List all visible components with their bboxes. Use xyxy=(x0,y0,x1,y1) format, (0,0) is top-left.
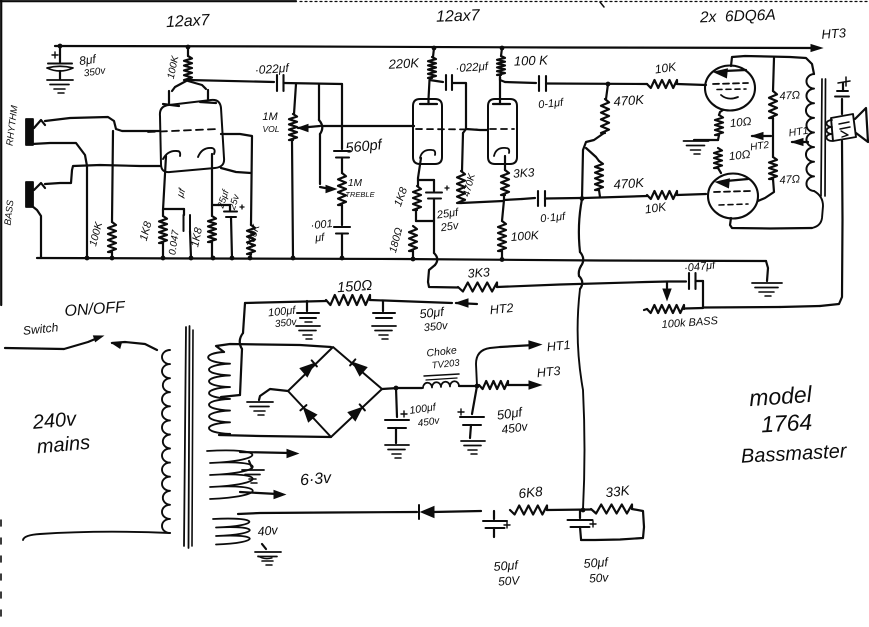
treble wiper arrow xyxy=(320,186,336,193)
diode bridge bottom-left xyxy=(300,405,316,422)
ground power tubes xyxy=(684,141,709,154)
resistor 1K8 stage1b xyxy=(208,216,216,258)
label 0.047 xyxy=(167,229,181,256)
resistor 3K3 feedback xyxy=(458,283,497,292)
capacitor 0.047uf xyxy=(184,215,192,258)
rail junction dots xyxy=(85,256,505,262)
label 240v mains xyxy=(31,408,91,458)
tube V1 plates xyxy=(163,90,216,106)
label HT2 power xyxy=(750,140,771,154)
wire V1 cathode right xyxy=(211,154,213,216)
svg-text:50μf: 50μf xyxy=(419,305,446,322)
speaker top cap xyxy=(835,77,850,114)
ground 50uf450 xyxy=(461,441,485,454)
wire primary bottom xyxy=(812,191,823,228)
label HT3 psu xyxy=(536,364,561,380)
capacitor 560pf xyxy=(334,151,350,158)
label 220K xyxy=(387,55,420,72)
wire rhythm sleeve down xyxy=(32,143,87,258)
svg-text:TREBLE: TREBLE xyxy=(345,190,375,199)
label 50uf 450v xyxy=(496,404,529,437)
svg-text:150Ω: 150Ω xyxy=(337,278,373,296)
mains transformer core xyxy=(184,326,193,548)
resistor 470K upper xyxy=(601,84,609,133)
svg-text:100 K: 100 K xyxy=(514,52,550,68)
label HT1 psu xyxy=(546,338,571,354)
svg-text:240v: 240v xyxy=(31,408,78,434)
label 1M VOL xyxy=(262,111,279,134)
resistor 47R upper xyxy=(769,91,777,118)
label 100K stage1b xyxy=(245,222,263,249)
ground 50uf350 xyxy=(372,326,396,339)
wire treble tap with hop xyxy=(319,84,322,184)
label BASS xyxy=(3,199,17,226)
bass pot arrow xyxy=(663,282,671,300)
choke TV203 xyxy=(424,344,461,380)
wire 47R to V4 xyxy=(758,179,774,201)
label 100uf 350v xyxy=(267,305,298,331)
label 180R xyxy=(387,226,405,254)
label 3K3 feedback xyxy=(467,265,490,281)
label HT2 psu xyxy=(489,301,514,317)
wire primary bottom lead xyxy=(23,532,170,540)
tube V3 dashes xyxy=(713,83,748,90)
label .022uf stage2 xyxy=(455,61,490,75)
ground 100uf450 xyxy=(385,445,409,458)
wire 3K3 to .047 xyxy=(497,282,686,288)
tube V4 plate arrow xyxy=(716,179,748,188)
node junction top xyxy=(606,82,611,87)
svg-text:10Ω: 10Ω xyxy=(729,116,752,130)
tube V2a grid dashes xyxy=(416,128,478,131)
wire 150R to HT2 arrow xyxy=(370,299,477,307)
diode bridge top-left xyxy=(300,360,317,376)
svg-text:6K8: 6K8 xyxy=(518,484,544,501)
wire bridge output xyxy=(382,388,422,389)
wire rhythm grid xyxy=(45,117,159,131)
tube V2b envelope xyxy=(488,99,517,164)
capacitor 100uf 350v xyxy=(297,301,319,322)
label 1K8 stage1b xyxy=(189,226,205,249)
wire 470K jog xyxy=(582,133,604,199)
tube V1 envelope xyxy=(160,100,224,172)
capacitor .022uf stage2 xyxy=(430,75,453,90)
svg-text:220K: 220K xyxy=(387,55,420,72)
resistor 100K tail xyxy=(498,200,506,258)
svg-text:47Ω: 47Ω xyxy=(779,173,800,186)
label 1M TREBLE xyxy=(345,178,375,199)
label 6.3v xyxy=(299,470,332,490)
label 100K stage2b plate xyxy=(514,52,550,68)
wire bass net xyxy=(684,306,820,309)
resistor 100K stage2b xyxy=(497,48,505,75)
svg-text:470K: 470K xyxy=(613,175,646,192)
svg-text:·022μf: ·022μf xyxy=(254,61,290,77)
wire V4 bottom xyxy=(730,218,812,229)
label ON/OFF xyxy=(64,299,127,320)
capacitor 25uf 25v stage1 xyxy=(224,205,244,258)
tube V4 (6DQ6A lower) xyxy=(708,174,758,219)
tube V3 plate arrow xyxy=(714,69,746,78)
label 10R upper xyxy=(729,116,752,130)
label 0-1uf upper xyxy=(538,97,565,112)
label 100uf 450v xyxy=(409,401,441,429)
wire V3 top to transformer xyxy=(731,56,814,74)
switch xyxy=(5,336,157,350)
label 10K upper xyxy=(654,59,678,76)
wire 33K loop xyxy=(581,509,644,540)
transformer 6.3v winding xyxy=(207,450,253,499)
node junction dots on rail xyxy=(58,44,505,51)
capacitor 100uf 450v xyxy=(385,388,409,443)
svg-text:50μf: 50μf xyxy=(583,555,610,571)
label 470K lower xyxy=(613,175,646,192)
wire ground rail xyxy=(37,258,766,261)
svg-text:VOL: VOL xyxy=(262,124,279,134)
resistor 100K grid leak xyxy=(108,131,116,258)
wire plate junction to tube xyxy=(172,80,206,91)
resistor 180R stage2 xyxy=(409,226,417,258)
label HT1 power xyxy=(788,125,809,140)
label .022uf stage1 xyxy=(254,61,290,77)
svg-text:12ax7: 12ax7 xyxy=(166,12,212,31)
svg-text:1764: 1764 xyxy=(760,409,812,438)
tube V3 (6DQ6A upper) xyxy=(705,66,755,111)
resistor 100K stage1 plate xyxy=(184,47,192,80)
tube V1 cathodes xyxy=(163,148,215,159)
wire HT1 branch xyxy=(476,341,541,386)
wire cathode junction to cap xyxy=(504,198,535,200)
wire 40v line xyxy=(238,512,417,514)
potentiometer 1M TREBLE xyxy=(338,158,346,226)
label 100k BASS xyxy=(661,315,719,331)
wire HT sec bottom xyxy=(219,434,331,437)
wire bias feed xyxy=(578,199,585,509)
svg-text:100K: 100K xyxy=(510,228,540,244)
tube V2b cathode xyxy=(494,148,509,169)
wire to ground xyxy=(694,139,718,141)
wire V2b plate junction xyxy=(500,77,536,83)
wire tie 25uf stage2 xyxy=(418,180,434,191)
label 100K grid xyxy=(87,220,105,248)
label 6K8 xyxy=(518,484,544,501)
capacitor 50uf 50v #1 xyxy=(483,511,510,537)
wire HT2 line xyxy=(245,301,326,303)
svg-text:2x 6DQ6A: 2x 6DQ6A xyxy=(699,7,776,27)
potentiometer 100k bass xyxy=(644,305,684,313)
tube V1 grid dashes xyxy=(148,129,218,132)
resistor 1K8 stage2 xyxy=(413,178,421,210)
svg-text:HT1: HT1 xyxy=(546,338,571,354)
label 33K xyxy=(605,483,631,501)
svg-text:HT3: HT3 xyxy=(821,25,847,42)
resistor 3K3 cathode V2b xyxy=(501,169,509,200)
wire HT3 top rail xyxy=(55,45,822,52)
jack bass xyxy=(26,182,45,207)
label 25uf 25v stage2 xyxy=(435,206,460,234)
capacitor 25uf 25v stage2 xyxy=(426,186,449,221)
wire cap to 10K lower xyxy=(545,197,580,200)
wire tie 25uf xyxy=(212,205,230,211)
bridge rectifier diamond xyxy=(288,347,382,437)
resistor 6K8 xyxy=(510,506,547,515)
wire cap to 560pf xyxy=(284,83,343,84)
svg-text:·022μf: ·022μf xyxy=(455,61,490,75)
label 12ax7 (second) xyxy=(436,7,481,26)
svg-text:HT2: HT2 xyxy=(489,301,514,317)
diode bias xyxy=(419,505,481,519)
choke coil xyxy=(423,381,459,388)
svg-text:50V: 50V xyxy=(498,573,521,589)
capacitor .001uf xyxy=(334,227,350,258)
output secondary xyxy=(827,120,832,141)
label 150R xyxy=(337,278,373,296)
svg-text:1M: 1M xyxy=(348,178,363,189)
wire 6.3v arrow bottom xyxy=(240,491,285,499)
label 100K tail xyxy=(510,228,540,244)
wire plate to cap xyxy=(188,80,274,82)
wire HT sec top xyxy=(216,344,331,352)
tube V2a plate xyxy=(420,80,437,104)
svg-text:40v: 40v xyxy=(257,523,279,539)
output transformer primary xyxy=(806,74,814,191)
wire bass sleeve down xyxy=(32,206,41,258)
capacitor 0-1uf lower xyxy=(538,191,545,206)
wire V3 bottom xyxy=(719,110,723,115)
wire V1 grid2 out xyxy=(221,134,252,225)
svg-text:·001: ·001 xyxy=(310,218,333,232)
wire to 10K top xyxy=(546,82,647,85)
svg-text:47Ω: 47Ω xyxy=(779,89,800,102)
diode bridge bottom-right xyxy=(348,404,365,420)
label 1K8 stage1a xyxy=(138,219,155,242)
resistor 47R lower xyxy=(769,157,777,179)
label 40v xyxy=(257,523,279,539)
wire wiper to V2a grid xyxy=(322,125,414,127)
node psu junction dots xyxy=(394,384,480,391)
label 0-1uf lower xyxy=(540,211,567,226)
wire V1 cathode left xyxy=(163,156,166,216)
wire 470K bottom to cathode junction xyxy=(461,201,503,203)
tube V2b grid dashes xyxy=(490,128,514,130)
svg-text:3K3: 3K3 xyxy=(467,265,490,281)
wire speaker feedback xyxy=(820,141,843,306)
transformer core xyxy=(821,79,826,196)
svg-text:10Ω: 10Ω xyxy=(728,149,751,163)
ground 100uf350 xyxy=(296,326,320,339)
ground 6.3v xyxy=(242,461,264,483)
svg-text:mains: mains xyxy=(36,432,91,459)
node HT3 (top right) xyxy=(821,25,847,42)
svg-text:HT3: HT3 xyxy=(536,364,561,380)
svg-text:model: model xyxy=(748,381,813,411)
tube V4 dashes xyxy=(714,191,750,205)
wire 10R to V4 xyxy=(718,168,721,173)
label 12ax7 (first) xyxy=(166,12,212,31)
resistor 100K stage1b grid leak xyxy=(247,225,255,258)
label 25uf 25v stage1 xyxy=(215,187,242,212)
resistor 10R upper xyxy=(715,115,723,135)
node HT1 arrow power xyxy=(792,139,808,146)
svg-text:3K3: 3K3 xyxy=(513,165,536,180)
resistor 470K lower xyxy=(586,148,603,197)
label uf (0.047) xyxy=(175,186,189,200)
label 47R upper xyxy=(779,89,800,102)
resistor 1K8 stage1a xyxy=(159,216,167,258)
label 470K grid V2b xyxy=(461,171,478,198)
capacitor 8uf 350v xyxy=(47,46,73,79)
svg-text:50μf: 50μf xyxy=(493,558,520,574)
resistor 220K xyxy=(428,48,436,78)
wire bridge left to ground xyxy=(259,389,288,400)
tube V2b plate xyxy=(493,77,510,104)
capacitor .022uf stage1 xyxy=(277,75,284,91)
diode bridge top-right xyxy=(350,359,367,375)
label RHYTHM xyxy=(5,105,21,147)
label 50uf 50v #2 xyxy=(583,555,610,586)
potentiometer 1M VOL xyxy=(289,84,297,258)
ground bridge xyxy=(247,402,273,415)
label 470K upper xyxy=(613,92,646,109)
label Switch xyxy=(22,320,59,338)
svg-text:50v: 50v xyxy=(589,570,610,585)
svg-text:6·3v: 6·3v xyxy=(299,470,332,490)
label 8uf 350v xyxy=(78,52,107,80)
node bias junction xyxy=(581,508,586,513)
label .001uf xyxy=(310,218,333,245)
wire rail right end xyxy=(766,261,768,281)
ground below 8uf xyxy=(47,80,73,93)
label 50uf 50v #1 xyxy=(493,558,521,589)
tube V2a cathode xyxy=(418,150,435,178)
resistor 33K xyxy=(591,505,632,514)
label 560pf xyxy=(345,137,385,157)
capacitor .047uf xyxy=(689,273,696,289)
speaker xyxy=(831,108,868,142)
wire 150R feed with hop xyxy=(221,303,245,397)
resistor 10K upper xyxy=(647,80,706,88)
wire choke out xyxy=(459,385,477,387)
svg-text:470K: 470K xyxy=(613,92,646,109)
tube V3 cathode xyxy=(721,95,738,99)
label 47R lower xyxy=(779,173,800,186)
transformer primary winding xyxy=(162,350,170,533)
ground 40v xyxy=(255,544,281,565)
ground rail-end xyxy=(752,283,782,296)
label 100K stage1 xyxy=(166,54,182,80)
resistor 150R xyxy=(326,295,370,305)
label model 1764 Bassmaster xyxy=(740,381,848,468)
wire to 560pf xyxy=(341,84,343,149)
node cathode junction xyxy=(718,135,719,140)
capacitor 0-1uf upper xyxy=(539,76,546,91)
wire 47R chain top xyxy=(773,58,774,91)
svg-text:1M: 1M xyxy=(262,111,278,123)
wire 1K8-cap tie bottom xyxy=(416,210,434,221)
label .047uf xyxy=(684,259,717,274)
label 3K3 V2b xyxy=(513,165,536,180)
wire .022 to V2b grid xyxy=(452,83,487,130)
resistor HT3 psu xyxy=(479,381,541,389)
tube V2a envelope xyxy=(413,99,442,164)
wire 6.3v arrow top xyxy=(240,450,298,458)
transformer HT secondary xyxy=(208,352,230,434)
jack rhythm xyxy=(26,119,45,145)
svg-text:12ax7: 12ax7 xyxy=(436,7,481,26)
wire 25uf to 3K3 hop xyxy=(428,221,458,288)
label 2x 6DQ6A xyxy=(699,7,776,27)
label 10R lower xyxy=(728,149,751,163)
resistor 470K grid V2b xyxy=(457,129,466,203)
wire cathode tie xyxy=(163,209,184,215)
resistor 10R lower xyxy=(714,148,722,168)
resistor 10K lower xyxy=(584,191,706,199)
node junction lower xyxy=(580,196,585,201)
capacitor 50uf 350v xyxy=(373,301,395,318)
wire bass tip xyxy=(45,165,160,184)
wire 6K8 to 33K xyxy=(547,508,591,511)
wire 47R middle xyxy=(772,118,774,157)
label 1K8 stage2 xyxy=(392,185,410,208)
svg-text:33K: 33K xyxy=(605,483,631,501)
label 10K lower xyxy=(644,199,668,216)
capacitor 50uf 450v xyxy=(458,386,484,438)
transformer 40v winding xyxy=(213,519,250,545)
capacitor 50uf 50v #2 xyxy=(568,510,597,539)
pot wiper arrow xyxy=(298,125,320,132)
label 50uf 350v xyxy=(419,305,450,335)
node HT2 arrow xyxy=(752,133,771,140)
wire .047 right xyxy=(696,281,704,307)
